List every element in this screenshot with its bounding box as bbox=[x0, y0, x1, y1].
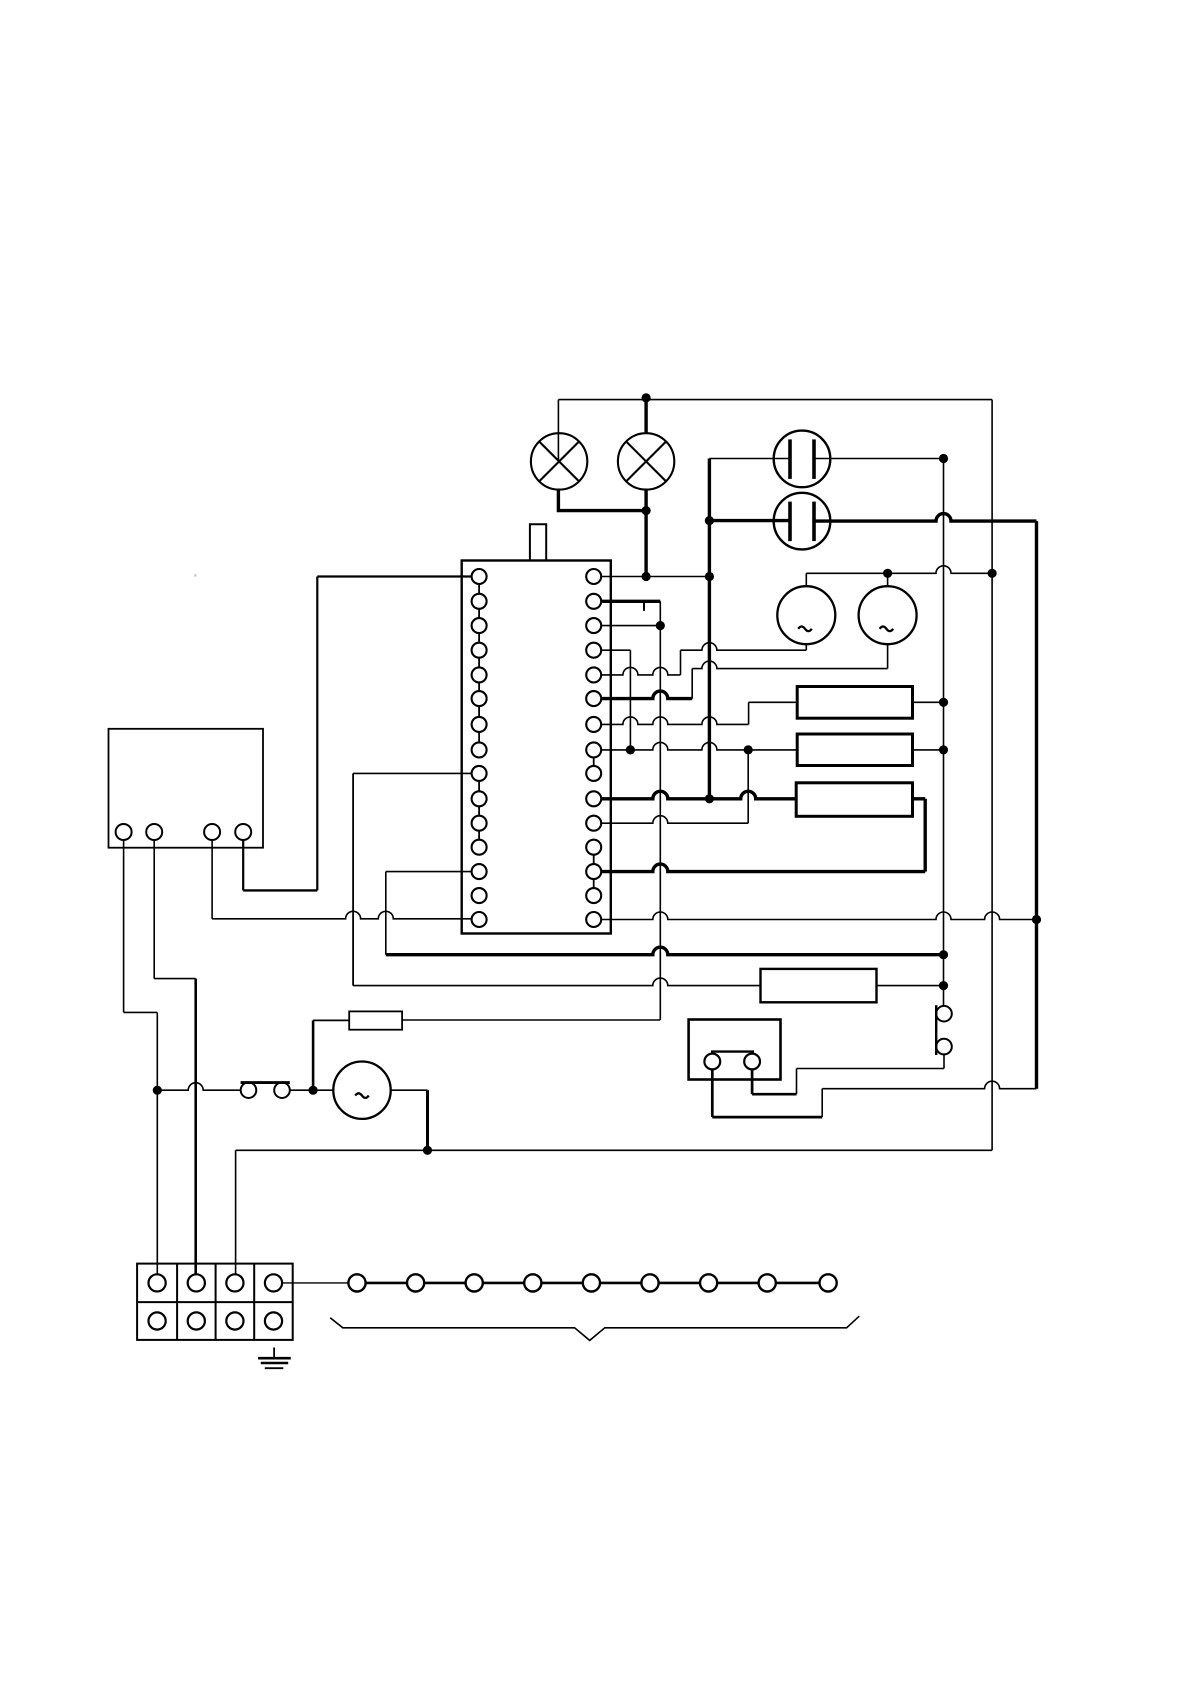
wire: R2 right lead bbox=[913, 749, 944, 751]
terminal strip X2 terminal 7 bbox=[700, 1274, 717, 1291]
wire: selector T4 row bbox=[243, 889, 317, 891]
earth ground symbol PE bbox=[273, 1348, 275, 1358]
wire: M3 right drop bbox=[426, 1090, 429, 1150]
link between U1 right pins 13-14 bbox=[593, 879, 595, 888]
X1 bottom terminal 2 bbox=[188, 1312, 205, 1329]
terminal strip X2 terminal 4 bbox=[524, 1274, 541, 1291]
wire: vertical from pin2 row down to R5 lead bbox=[659, 601, 661, 1020]
wire: motor M3 row left part bbox=[157, 1083, 240, 1091]
node at E2 top on bus bbox=[642, 393, 651, 402]
wire: vertical from C1 corner down to cutout S3 bbox=[943, 459, 945, 1006]
wire: pin7 riser to R1 lead bbox=[748, 702, 750, 724]
controller U1 left pin 1 bbox=[472, 569, 487, 584]
X1 bottom terminal 3 bbox=[226, 1312, 243, 1329]
wire: U1 pin13 left row bbox=[386, 871, 472, 873]
wire: thick row to C1-vertical bbox=[386, 947, 944, 954]
controller/programmer unit U1 body bbox=[462, 561, 611, 934]
controller U1 left pin 8 bbox=[472, 742, 487, 757]
wire: U1 pin13 right row bbox=[601, 864, 925, 872]
terminal strip X2 terminal 5 bbox=[583, 1274, 600, 1291]
wire: T1 vertical to terminal block bbox=[156, 1012, 158, 1274]
switch S2 contact circles bbox=[241, 1082, 257, 1098]
node R1 right lead junction bbox=[939, 698, 948, 707]
wire: pin5 riser bbox=[680, 650, 682, 675]
link between U1 left pins 6-7 bbox=[478, 706, 480, 717]
heating element R1 bbox=[797, 687, 912, 719]
controller U1 right pin 2 bbox=[586, 594, 601, 609]
oven lamp E1 (circle-X) bbox=[531, 433, 587, 489]
wire: R1 left lead bbox=[749, 701, 798, 703]
switch S2 contact bar bbox=[241, 1081, 290, 1084]
wire: selector T2 jog bbox=[154, 978, 196, 980]
fan motor M2 body bbox=[859, 586, 917, 644]
controller U1 right pin 7 bbox=[586, 717, 601, 732]
node pin3 row on pin2 vertical bbox=[656, 621, 665, 630]
X1 bottom terminal 1 bbox=[149, 1312, 166, 1329]
resistor R5 bbox=[349, 1011, 402, 1029]
wire: M2 top lead bbox=[887, 573, 889, 586]
selector S1 terminal 4 bbox=[235, 824, 251, 840]
selector S1 terminal 1 bbox=[116, 824, 132, 840]
node motor-top row on far right vertical bbox=[988, 569, 997, 578]
X1 top terminal 4 bbox=[265, 1274, 282, 1291]
link between U1 left pins 3-4 bbox=[478, 633, 480, 643]
wire: U1 pin11 row bbox=[601, 816, 748, 823]
controller U1 left pin 2 bbox=[472, 594, 487, 609]
controller U1 left pin 9 bbox=[472, 766, 487, 781]
thermal cutout S3 contact circles bbox=[936, 1006, 952, 1022]
node pin4-vertical on pin8 row bbox=[626, 745, 635, 754]
terminal strip X2 terminal 1 bbox=[348, 1274, 365, 1291]
wire: X1 col4 to terminal strip bbox=[281, 1282, 357, 1284]
wire: R5 right lead bbox=[402, 1019, 660, 1021]
node thick row on C1-vertical bbox=[939, 950, 948, 959]
controller U1 right pin 13 bbox=[586, 864, 601, 879]
node R5 branch on M3 row bbox=[309, 1086, 318, 1095]
wire: U1 pin2 row bbox=[601, 600, 660, 603]
wire: R4 left row bbox=[353, 978, 760, 986]
controller U1 right pin 4 bbox=[586, 643, 601, 658]
mains terminal block X1 grid bbox=[137, 1264, 293, 1340]
wire: R1 right lead bbox=[913, 701, 944, 703]
wire: selector T2 drop bbox=[153, 840, 155, 979]
wire: right thick vertical (C2 to door-switch net) bbox=[1035, 521, 1038, 1089]
link between U1 left pins 9-10 bbox=[478, 781, 480, 791]
wire: motor M3 row middle part bbox=[290, 1089, 334, 1091]
node M2 top lead on motor row bbox=[883, 569, 892, 578]
heating element symbol C2 (circle with plates) bbox=[774, 493, 831, 550]
controller U1 left pin 5 bbox=[472, 667, 487, 682]
wire: pin6 to M2 bottom bbox=[692, 661, 887, 669]
wire: U1 pin9 left row bbox=[353, 772, 472, 774]
terminal strip X2 terminal 9 bbox=[820, 1274, 837, 1291]
controller U1 right pin 9 bbox=[586, 766, 601, 781]
controller U1 left pin 13 bbox=[472, 864, 487, 879]
heating element R3 bbox=[796, 783, 912, 817]
controller U1 left pin 15 bbox=[472, 912, 487, 927]
selector S1 terminal 2 bbox=[146, 824, 162, 840]
node C1 right lead corner bbox=[939, 454, 948, 463]
controller U1 right pin 3 bbox=[586, 618, 601, 633]
controller U1 left pin 4 bbox=[472, 643, 487, 658]
thermal cutout S3 contact bar bbox=[935, 1005, 937, 1055]
wire: C1 left lead bbox=[709, 458, 790, 460]
wire: riser selector-T4 to pin1 row bbox=[316, 577, 318, 891]
wire: M2 bottom lead bbox=[887, 644, 889, 668]
wire: R4 right lead bbox=[877, 985, 944, 987]
controller U1 right pin 8 bbox=[586, 742, 601, 757]
controller U1 left pin 10 bbox=[472, 791, 487, 806]
wire: lamp E2 bottom lead down to pin1 row bbox=[644, 489, 647, 577]
node M3 drop on bottom row bbox=[423, 1146, 432, 1155]
fan motor M2 AC tilde bbox=[880, 627, 894, 632]
link between U1 left pins 2-3 bbox=[478, 609, 480, 618]
wire: S3 bottom lead bbox=[943, 1054, 945, 1068]
door switch S4 contact circles bbox=[704, 1054, 720, 1070]
link between U1 left pins 5-6 bbox=[478, 682, 480, 691]
X1 top terminal 2 bbox=[188, 1274, 205, 1291]
wire: riser at 796 bbox=[796, 1069, 798, 1095]
controller U1 left pin 6 bbox=[472, 691, 487, 706]
wire: U1 pin7 row bbox=[601, 717, 748, 724]
selector S1 terminal 3 bbox=[204, 824, 220, 840]
wire: vertical pin8-row to pin11-row bbox=[747, 750, 749, 823]
controller U1 right pin 12 bbox=[586, 840, 601, 855]
wire: U1 pin4 row bbox=[601, 649, 630, 651]
X1 bottom terminal 4 bbox=[265, 1312, 282, 1329]
wire: U1 pin1 left row bbox=[317, 575, 471, 577]
node thick vertical end on pin10 row bbox=[705, 794, 714, 803]
wire: S4 left contact drop bbox=[711, 1069, 714, 1117]
wire: selector T4 drop bbox=[242, 840, 244, 890]
node pin15 row on right thick vertical bbox=[1032, 915, 1041, 924]
wire: vertical from pin4 down to pin8 row bbox=[629, 650, 631, 750]
link between U1 left pins 1-2 bbox=[478, 584, 480, 594]
door switch S4 box bbox=[689, 1020, 781, 1080]
X1 top terminal 1 bbox=[149, 1274, 166, 1291]
link between U1 left pins 4-5 bbox=[478, 658, 480, 668]
wire: M1 top lead bbox=[805, 573, 807, 586]
wire: U1 pin8 row to R2 bbox=[601, 742, 797, 750]
wire: lamp E1 top lead bbox=[557, 400, 559, 462]
link between U1 left pins 10-11 bbox=[478, 806, 480, 815]
selector switch box S1 body bbox=[109, 729, 264, 848]
wire: U1 pin3 row bbox=[601, 625, 660, 627]
wire: bottom row drop to terminal block col3 bbox=[235, 1150, 237, 1274]
door switch S4 contact bar bbox=[711, 1050, 754, 1052]
faint printing speck bbox=[194, 574, 196, 576]
node pin1 row / vertical bus bbox=[705, 572, 714, 581]
wire: thick vertical bus from C1 lead bbox=[708, 459, 711, 799]
wire: C2 left lead bbox=[709, 519, 790, 522]
controller U1 right pin 1 bbox=[586, 569, 601, 584]
fan motor M1 body bbox=[777, 586, 835, 644]
node T1 vertical / motor row bbox=[153, 1086, 162, 1095]
controller U1 right pin 15 bbox=[586, 912, 601, 927]
wire: R5 left lead bbox=[313, 1019, 349, 1021]
controller U1 left pin 14 bbox=[472, 888, 487, 903]
wire: U1 pin5 row bbox=[601, 667, 680, 675]
wire: S4 right contact drop bbox=[751, 1069, 754, 1094]
controller U1 right pin 11 bbox=[586, 816, 601, 831]
wire: M3 right lead bbox=[391, 1089, 428, 1091]
heating element R2 bbox=[797, 734, 912, 766]
controller U1 right pin 14 bbox=[586, 888, 601, 903]
wire: bottom long row bbox=[236, 1149, 993, 1151]
wire: S4 left contact bottom row bbox=[712, 1116, 822, 1119]
wire: U1 pin15 right row bbox=[601, 912, 1036, 919]
wire: U1 right pin1 row bbox=[601, 576, 709, 578]
X1 top terminal 3 bbox=[226, 1274, 243, 1291]
controller U1 top tab bbox=[530, 524, 546, 560]
heating element symbol C1 (circle with plates) bbox=[774, 431, 831, 488]
wire: vertical pin9-left to R4 row bbox=[352, 773, 354, 985]
stub on pin2 row bbox=[643, 601, 645, 611]
controller U1 left pin 11 bbox=[472, 816, 487, 831]
fan motor M1 AC tilde bbox=[798, 627, 812, 632]
terminal strip X2 terminal 6 bbox=[641, 1274, 658, 1291]
wire: motor top row bbox=[806, 566, 992, 573]
heating element R4 bbox=[761, 969, 877, 1002]
link between U1 left pins 7-8 bbox=[478, 732, 480, 743]
wire: pin6 riser bbox=[691, 669, 693, 699]
node lamp lead on pin1 row bbox=[642, 572, 651, 581]
motor M3 AC tilde bbox=[355, 1093, 369, 1098]
wire: T2 vertical to terminal block bbox=[194, 979, 197, 1275]
node R4 right lead junction bbox=[939, 981, 948, 990]
wire: M1 bottom lead bbox=[805, 644, 807, 650]
controller U1 right pin 6 bbox=[586, 691, 601, 706]
wire: selector T3 to U1 pin15 left bbox=[212, 911, 472, 919]
wire: R5 branch riser bbox=[312, 1020, 315, 1090]
wire: S4 right contact jog bbox=[752, 1093, 796, 1096]
wire: R3 right drop bbox=[924, 799, 927, 872]
wire: row to cutout S3 bottom bbox=[797, 1068, 945, 1070]
motor M3 body bbox=[333, 1062, 390, 1119]
wire: R3 right lead bbox=[913, 797, 926, 800]
wire: pin5 to M1 bottom bbox=[681, 643, 807, 651]
controller U1 left pin 3 bbox=[472, 618, 487, 633]
node R2 right lead junction bbox=[939, 745, 948, 754]
node E1/E2 bottom junction bbox=[642, 506, 651, 515]
controller U1 right pin 5 bbox=[586, 667, 601, 682]
wire: row to right thick vertical bbox=[822, 1081, 1036, 1088]
controller U1 right pin 10 bbox=[586, 791, 601, 806]
terminal strip X2 terminal 8 bbox=[759, 1274, 776, 1291]
wire: selector T1 drop bbox=[123, 840, 125, 1012]
node R1-drop on pin8 row bbox=[744, 745, 753, 754]
wire: C2 right lead bbox=[814, 514, 1037, 521]
link between U1 right pins 12-13 bbox=[593, 855, 595, 864]
controller U1 left pin 12 bbox=[472, 840, 487, 855]
wire: selector T3 drop bbox=[211, 840, 213, 919]
link between U1 left pins 11-12 bbox=[478, 831, 480, 840]
node C2 left lead junction bbox=[705, 516, 714, 525]
link between U1 right pins 8-9 bbox=[593, 757, 595, 766]
terminal strip X2 terminal 3 bbox=[466, 1274, 483, 1291]
controller U1 left pin 7 bbox=[472, 717, 487, 732]
terminal strip X2 terminal 2 bbox=[407, 1274, 424, 1291]
wire: lamp E1 bottom lead bbox=[558, 489, 646, 511]
wire: vertical pin13-left to thick row bbox=[385, 872, 387, 955]
wire: C1 right lead bbox=[814, 458, 944, 460]
wire: riser at 822 bbox=[821, 1089, 823, 1117]
underbrace below terminal strip bbox=[330, 1316, 859, 1340]
wire: top bus bbox=[558, 399, 992, 401]
wire: U1 pin10 row to R3 bbox=[601, 791, 796, 799]
wire: lamp E2 top lead bbox=[644, 398, 647, 434]
wire: far right vertical from top bus bbox=[991, 400, 993, 1151]
wire: U1 pin6 row bbox=[601, 691, 692, 699]
oven lamp E2 (circle-X) bbox=[618, 433, 674, 489]
wire: selector T1 jog bbox=[124, 1011, 158, 1013]
